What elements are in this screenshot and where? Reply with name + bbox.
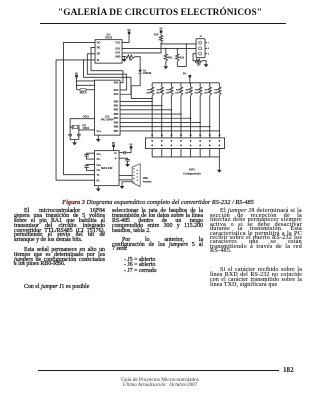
svg-text:5V: 5V	[183, 72, 186, 75]
svg-text:R7: R7	[205, 89, 209, 91]
wire D1 down and to R1 column	[131, 73, 152, 98]
svg-text:C2-: C2-	[97, 169, 101, 172]
resistor R7 10k	[209, 83, 211, 87]
wire line A to connector pin1	[161, 43, 196, 44]
svg-text:RB6: RB6	[114, 127, 119, 129]
junction 5V tap on bus	[189, 82, 191, 84]
svg-text:C1+: C1+	[97, 153, 102, 156]
power 5V for MAX232	[112, 144, 115, 147]
svg-text:J7: J7	[209, 135, 212, 137]
junction OSC2 xtal	[78, 129, 79, 130]
wire IC1 RE to PIC RA pin	[91, 48, 123, 83]
wire crystal to OSC1	[70, 126, 72, 128]
power 5V supply for IC1	[128, 31, 131, 34]
wire OSC1	[70, 119, 94, 135]
resistor R5 10k	[190, 83, 192, 87]
svg-text:J6: J6	[199, 135, 202, 137]
svg-text:RA2: RA2	[114, 82, 119, 85]
svg-text:5V: 5V	[128, 29, 131, 32]
svg-text:RB5: RB5	[114, 122, 119, 124]
svg-text:1: 1	[208, 43, 210, 45]
svg-text:OSC2: OSC2	[83, 128, 90, 130]
junction MCLR 2	[76, 85, 78, 87]
op-amp U1: IC1 75176 transceiver box	[95, 40, 122, 64]
op-amp U2: IC2 PIC16F84 box	[95, 80, 121, 135]
capacitor C2	[87, 164, 95, 165]
svg-text:J5: J5	[189, 135, 192, 137]
wire PIC RB2 to column 3	[120, 109, 171, 111]
svg-text:J1: J1	[151, 135, 154, 137]
svg-text:C1-: C1-	[97, 158, 101, 161]
resistor R6 10k	[199, 83, 201, 87]
ground at J3	[205, 63, 207, 65]
svg-text:10k: 10k	[166, 93, 170, 95]
svg-text:R1: R1	[147, 89, 151, 91]
resistor R3 10k	[170, 83, 172, 87]
wire IC1 RO to MAX232 T1in	[64, 42, 96, 174]
svg-text:R5: R5	[186, 89, 190, 91]
ground below PIC Vss	[97, 137, 99, 139]
resistor on MCLR line	[80, 89, 86, 91]
capacitor C5 plates	[68, 133, 72, 135]
junction GND node	[124, 56, 126, 58]
svg-text:R4: R4	[176, 88, 180, 91]
J3 pin3 stub	[205, 53, 207, 55]
svg-text:3: 3	[208, 54, 210, 56]
svg-text:T1: T1	[97, 174, 100, 177]
crystal XT1 body	[73, 125, 77, 128]
svg-text:XT1: XT1	[82, 126, 87, 128]
svg-text:IC2: IC2	[105, 114, 110, 118]
wire DB9 shield to ground	[122, 182, 132, 185]
wire 5V bus of resistor network	[152, 82, 219, 84]
junction A-line / R12 return	[186, 43, 188, 45]
svg-text:10k: 10k	[146, 93, 150, 95]
svg-text:RB0: RB0	[114, 101, 119, 103]
wire caps common	[70, 139, 79, 141]
svg-text:R10: R10	[154, 34, 159, 37]
wire DI branch to PIC RA pin	[84, 60, 131, 94]
svg-text:RB7: RB7	[114, 131, 119, 133]
svg-text:10k: 10k	[156, 93, 160, 95]
svg-text:DO2: DO2	[115, 47, 121, 50]
wire IC1 GND pin	[122, 56, 126, 58]
capacitor C6 plates	[77, 133, 81, 135]
wire MCLR feed 2	[77, 84, 95, 86]
junction on DI wire	[83, 59, 85, 61]
wire R9 to D1	[135, 57, 140, 70]
power 5V at V+ cap	[130, 146, 133, 149]
wire IC3 GND	[97, 186, 99, 187]
svg-text:MCLR: MCLR	[80, 93, 87, 95]
svg-text:75176: 75176	[105, 35, 113, 39]
wire line A elbow	[122, 44, 161, 53]
svg-text:C2+: C2+	[97, 164, 102, 167]
wire PIC RB7 to column 8	[120, 130, 219, 132]
svg-text:R2: R2	[157, 89, 161, 91]
ground below DIP1	[218, 168, 220, 170]
crystal XT1 right plate	[78, 125, 80, 130]
resistor R10 pull-up	[160, 33, 162, 36]
svg-text:VCC: VCC	[115, 41, 120, 44]
svg-text:DB9: DB9	[143, 178, 148, 180]
wire Vss to ground	[97, 135, 99, 137]
junction RB6	[209, 126, 211, 128]
DIP1 bottom pins	[151, 149, 153, 157]
svg-text:DO1: DO1	[115, 52, 121, 55]
resistor R12 termination	[176, 49, 178, 55]
svg-text:J2: J2	[161, 135, 164, 137]
svg-text:RB4: RB4	[114, 117, 119, 120]
wire PIC RB4 to column 5	[120, 117, 191, 119]
ground below crystal caps	[74, 141, 76, 143]
svg-text:J8: J8	[218, 135, 221, 137]
J3 pin 1 circle	[199, 41, 202, 44]
wire OSC2	[79, 129, 95, 131]
wire line B to connector	[122, 48, 196, 50]
svg-text:10k: 10k	[194, 93, 198, 95]
wire DIP1 common bus	[152, 156, 219, 158]
power 5V for pull-up R10	[160, 30, 163, 33]
svg-text:5V: 5V	[75, 72, 78, 75]
capacitor C1	[87, 153, 95, 154]
wire IC1 DI to MAX232 R1out	[56, 60, 95, 180]
power 5V for PIC MCLR	[75, 75, 78, 78]
svg-text:10k: 10k	[214, 93, 218, 95]
wire MCLR feed 1	[77, 80, 95, 82]
svg-text:J3: J3	[170, 135, 173, 137]
svg-text:MAX 232: MAX 232	[101, 166, 113, 170]
svg-text:R9: R9	[129, 59, 133, 61]
wire R13 to ground	[202, 61, 206, 63]
wire DIP bus to ground	[218, 157, 220, 168]
svg-text:V+: V+	[114, 152, 118, 155]
ground below DB9	[121, 184, 123, 186]
wire J3 pin3 to R13	[193, 54, 196, 61]
crystal XT1 left plate	[71, 125, 73, 130]
connector DIP1 body	[145, 138, 224, 149]
svg-text:5V: 5V	[130, 144, 133, 147]
resistor R11 pull-down	[165, 49, 167, 55]
resistor R4 10k	[180, 83, 182, 87]
svg-text:DIP1: DIP1	[189, 168, 195, 172]
wire PIC RB6 to column 7	[120, 126, 210, 128]
svg-text:RB2: RB2	[114, 110, 119, 112]
J3 pin1 stub	[205, 42, 207, 44]
svg-text:RA4: RA4	[114, 93, 119, 96]
svg-text:R6: R6	[195, 89, 199, 91]
junction RB5	[199, 122, 201, 124]
wire R12 return to A line	[177, 44, 186, 67]
svg-text:J4: J4	[180, 134, 183, 137]
junction A-line / R10	[160, 43, 162, 45]
J3 pin2 stub	[205, 47, 207, 49]
DB9 pins	[133, 168, 134, 169]
J3 pin 2 circle	[199, 47, 202, 50]
svg-text:DI: DI	[97, 59, 100, 62]
junction RB0	[151, 101, 153, 103]
svg-text:5V: 5V	[160, 28, 163, 31]
wire IC1 DE to PIC RA pin	[87, 54, 126, 90]
svg-text:RB1: RB1	[114, 106, 119, 108]
svg-text:R12: R12	[180, 56, 185, 59]
junction RB1	[161, 105, 163, 107]
svg-text:DE: DE	[97, 53, 101, 56]
wire T1out to DB9	[119, 174, 132, 176]
svg-text:10k: 10k	[175, 93, 179, 95]
ground below IC1 GND pin	[123, 57, 125, 59]
svg-text:Vss: Vss	[97, 130, 102, 133]
wire IC1 VCC to 5V	[122, 33, 129, 42]
resistor R8 10k	[218, 83, 220, 87]
svg-text:GND: GND	[115, 56, 121, 59]
svg-text:10k: 10k	[185, 93, 189, 95]
svg-text:2: 2	[208, 48, 210, 50]
capacitor C4 on V-	[119, 158, 128, 159]
svg-text:RO: RO	[97, 41, 101, 44]
svg-text:R3: R3	[166, 89, 170, 91]
svg-text:1N4148: 1N4148	[143, 72, 152, 75]
svg-text:RA3: RA3	[114, 89, 119, 92]
J3 pin 3 circle	[199, 52, 202, 55]
svg-text:Configuración: Configuración	[183, 171, 201, 175]
junction RB4	[190, 118, 192, 120]
svg-text:V-: V-	[115, 157, 117, 160]
svg-text:R11: R11	[168, 56, 173, 59]
resistor R1 10k	[151, 83, 153, 87]
svg-text:R8: R8	[214, 89, 218, 91]
svg-text:J3: J3	[199, 36, 202, 38]
svg-text:PIC 16F84: PIC 16F84	[101, 118, 114, 122]
power 5V for resistor network	[189, 75, 192, 78]
ground below C4	[127, 162, 129, 164]
DIP1 switch contacts	[151, 140, 153, 142]
ground below R11	[165, 65, 167, 67]
junction MCLR 1	[76, 80, 78, 82]
diode D1 1N4148	[138, 70, 142, 73]
svg-text:hembra: hembra	[143, 182, 152, 184]
svg-text:120: 120	[197, 65, 202, 67]
junction B-line / R11	[165, 48, 167, 50]
junction D1 line / R1 column	[151, 98, 153, 100]
junction B-line / R12	[177, 48, 179, 50]
wire R1in to DB9	[119, 179, 132, 181]
resistor R2 10k	[161, 83, 163, 87]
wire PIC RB0 to column 1	[120, 101, 152, 103]
junction OSC1 xtal	[70, 127, 71, 128]
svg-text:RE: RE	[97, 46, 101, 49]
resistor R13 termination 120	[195, 59, 202, 62]
junction RB7	[219, 130, 221, 132]
svg-text:R1: R1	[97, 179, 101, 182]
ground below IC3	[97, 187, 99, 189]
junction RB3	[180, 113, 182, 115]
op-amp U3: IC3 MAX232 box	[95, 151, 120, 186]
wire PIC RB3 to column 4	[120, 113, 181, 115]
wire MCLR feed 3	[77, 89, 81, 91]
svg-text:10k: 10k	[204, 93, 208, 95]
resistor R9	[126, 55, 135, 58]
wire PIC RB5 to column 6	[120, 121, 200, 123]
svg-text:OSC1: OSC1	[83, 117, 90, 119]
svg-text:RB3: RB3	[114, 114, 119, 116]
svg-text:5V: 5V	[112, 142, 115, 145]
junction RB2	[171, 109, 173, 111]
connector J3 body	[196, 39, 205, 58]
wire V+ cap to 5V	[119, 152, 124, 154]
connector DB9 shell	[132, 164, 140, 187]
wire PIC RB1 to column 2	[120, 105, 162, 107]
